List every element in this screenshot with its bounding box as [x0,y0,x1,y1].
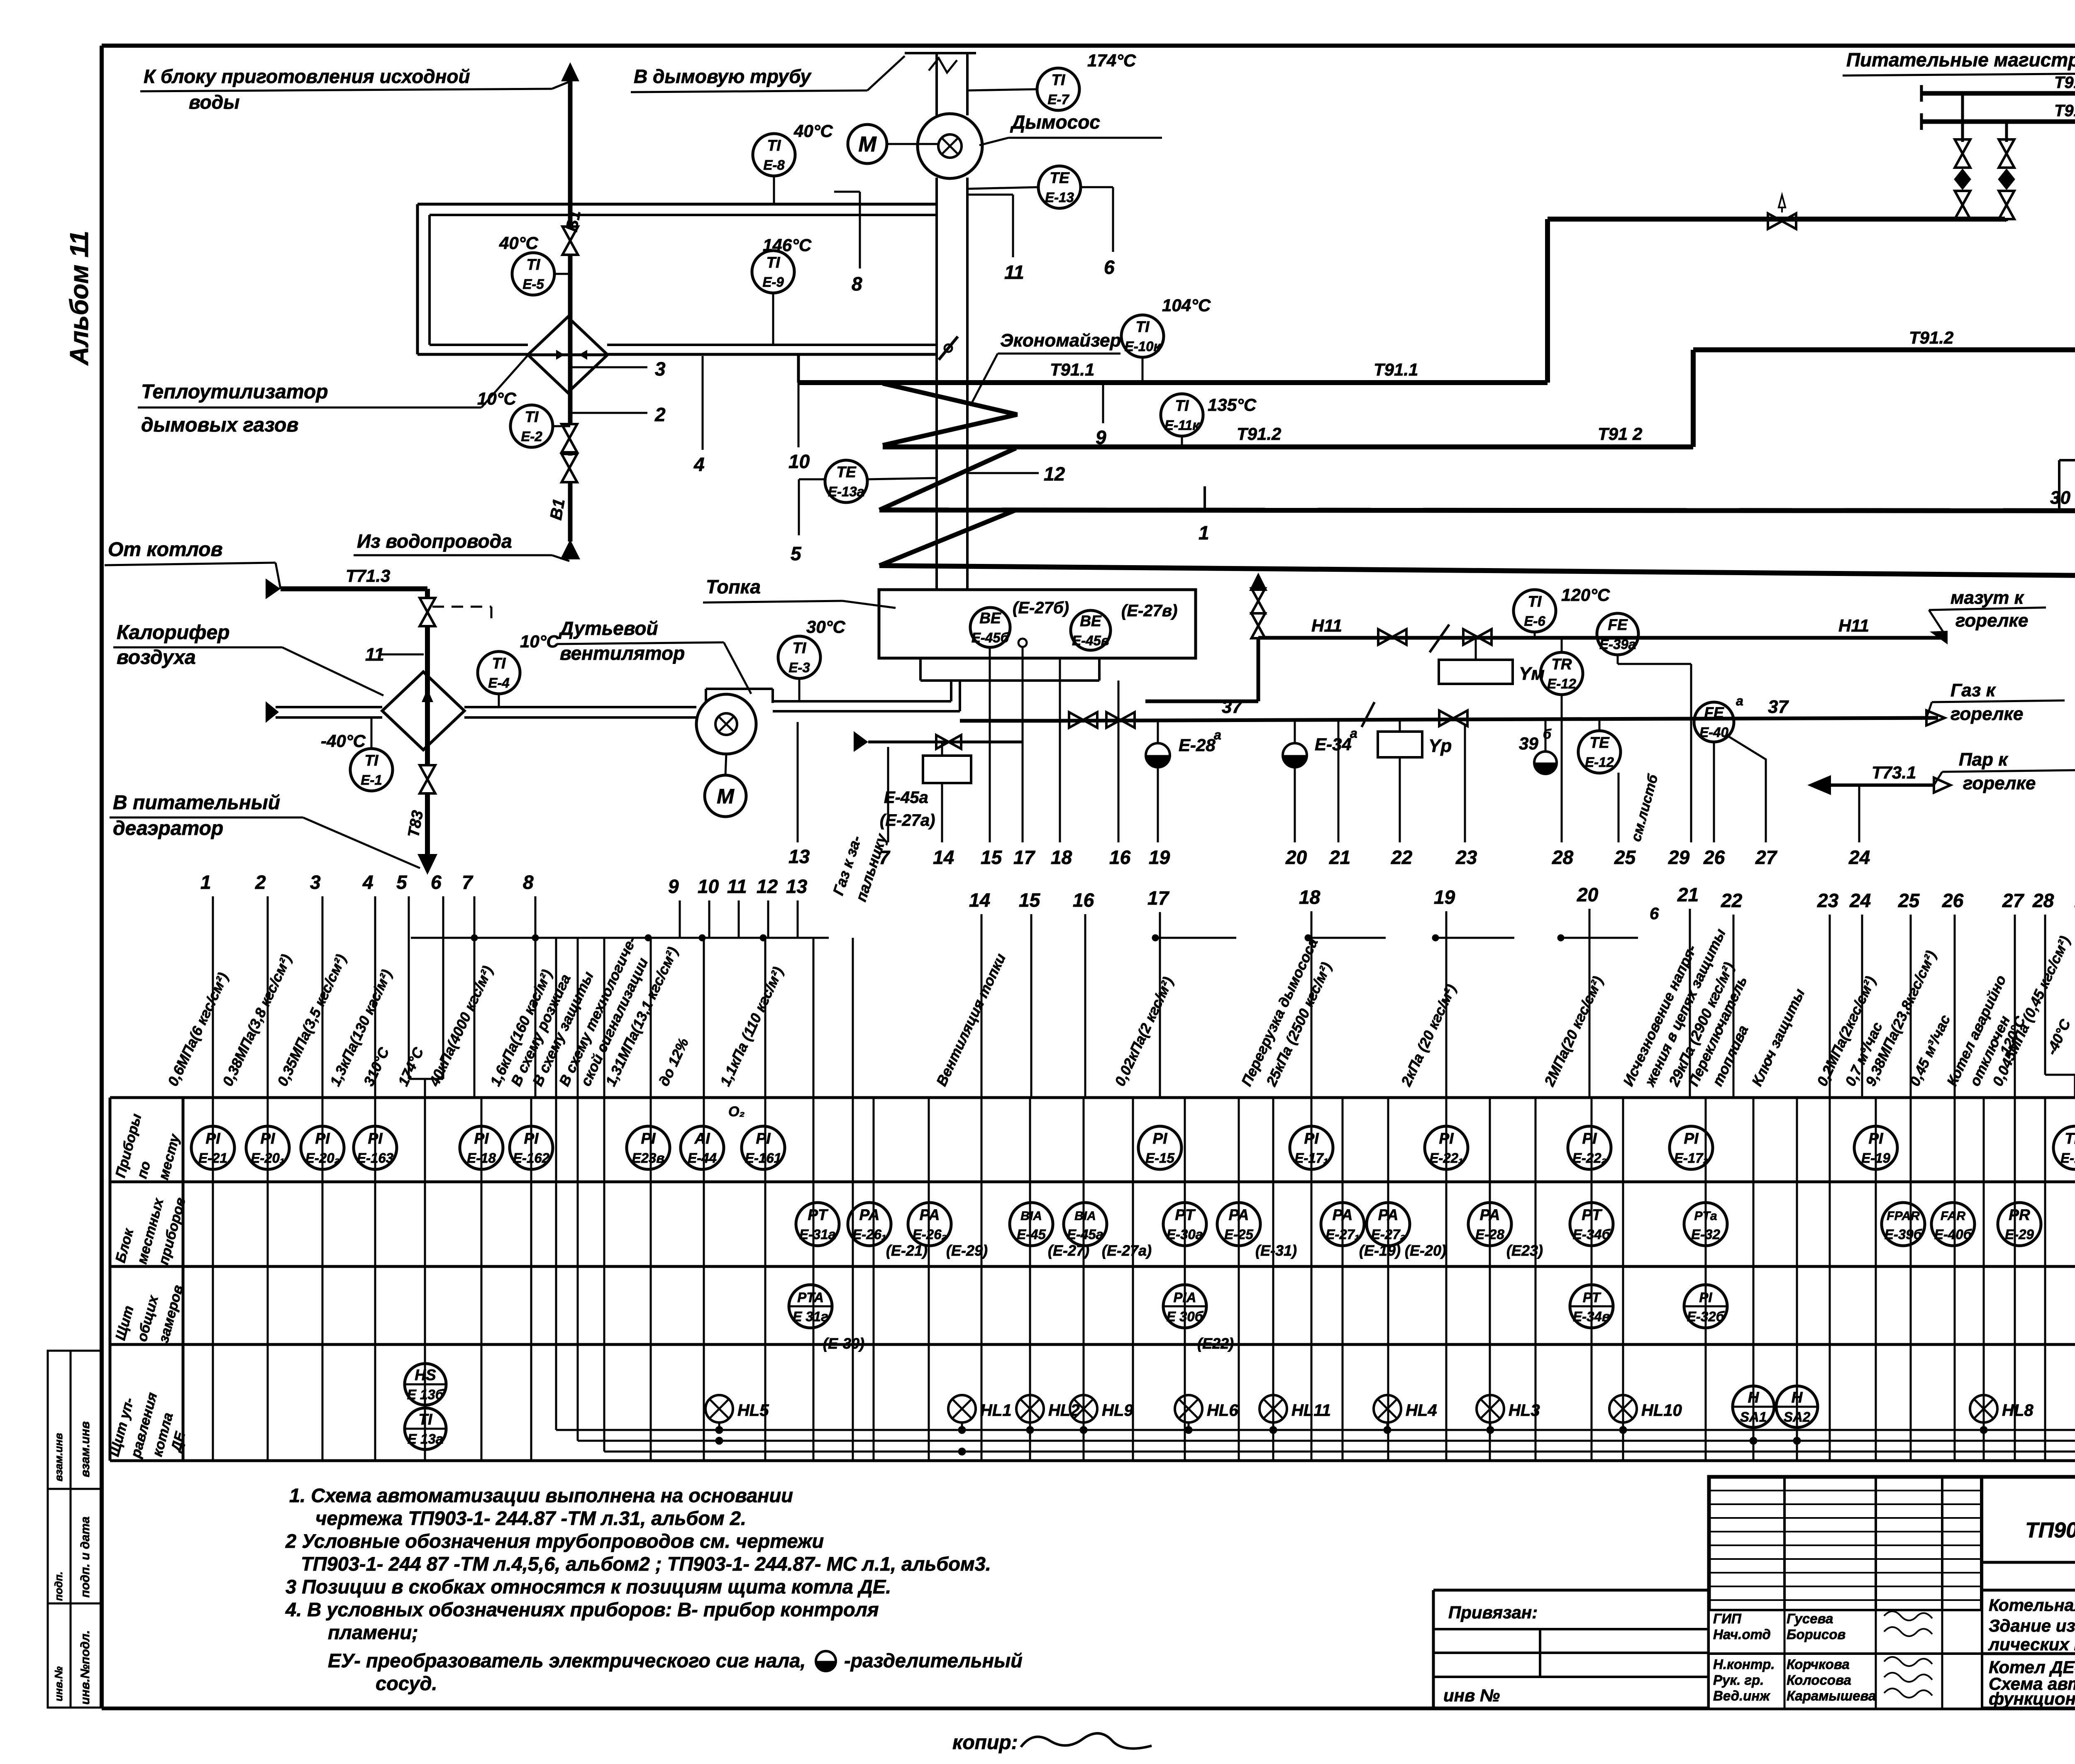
svg-text:Е-44: Е-44 [688,1150,717,1166]
svg-text:пламени;: пламени; [328,1621,418,1643]
svg-text:М: М [858,132,877,156]
svg-text:Т91.2: Т91.2 [1909,328,1953,347]
svg-text:Е-27₁: Е-27₁ [1326,1227,1359,1242]
svg-text:Е-3: Е-3 [788,660,810,675]
svg-text:16: 16 [1109,847,1131,868]
svg-text:(Е-31): (Е-31) [1255,1242,1297,1259]
svg-text:2: 2 [654,404,666,425]
svg-text:(Е-30): (Е-30) [823,1335,864,1352]
svg-text:дымовых газов: дымовых газов [141,414,298,436]
svg-text:Н11: Н11 [1311,616,1342,635]
svg-text:7: 7 [462,871,474,893]
svg-text:SA1: SA1 [1740,1409,1767,1425]
svg-text:В дымовую трубу: В дымовую трубу [634,66,812,87]
svg-text:HL1: HL1 [980,1401,1012,1420]
svg-text:PTа: PTа [1694,1209,1717,1223]
svg-text:TE: TE [1050,169,1070,186]
svg-text:PI: PI [1582,1130,1597,1147]
svg-text:(Е-27в): (Е-27в) [1121,602,1177,620]
svg-text:Е-34б: Е-34б [1573,1227,1611,1242]
svg-text:17: 17 [1147,887,1170,909]
svg-text:PI: PI [1304,1130,1319,1147]
svg-text:PI: PI [524,1130,539,1147]
svg-text:14: 14 [933,847,954,868]
svg-text:HL10: HL10 [1641,1401,1682,1420]
svg-text:Е-45а: Е-45а [1067,1227,1103,1242]
svg-text:(Е23): (Е23) [1506,1242,1543,1259]
svg-text:Газ к: Газ к [1950,680,1997,700]
svg-text:горелке: горелке [1955,610,2028,631]
svg-text:В1: В1 [563,209,584,233]
svg-text:Е-17₁: Е-17₁ [1294,1150,1328,1166]
svg-text:19: 19 [1149,847,1170,868]
svg-text:22: 22 [1721,890,1743,911]
svg-text:Топка: Топка [706,576,761,598]
svg-text:Е-39а: Е-39а [1599,637,1636,652]
svg-text:функциональная (Начало): функциональная (Начало) [1989,1689,2075,1708]
svg-text:Е-20₂: Е-20₂ [305,1150,339,1166]
svg-text:PI: PI [1684,1130,1699,1147]
svg-text:горелке: горелке [1950,704,2023,724]
svg-text:Е-31а: Е-31а [799,1227,836,1242]
svg-text:12: 12 [1044,463,1065,485]
svg-text:15: 15 [1019,889,1041,911]
svg-text:Котельная с 4котлами ДЕ-10-14Г: Котельная с 4котлами ДЕ-10-14ГМ [1989,1596,2075,1615]
svg-text:23: 23 [1455,847,1477,868]
svg-text:воздуха: воздуха [117,647,196,669]
svg-text:TR: TR [1551,656,1572,673]
svg-text:PI: PI [261,1130,276,1147]
svg-text:40°С: 40°С [499,233,539,253]
svg-text:TI: TI [1528,593,1542,610]
svg-text:-разделительный: -разделительный [844,1649,1023,1671]
svg-text:Т91.1: Т91.1 [1050,360,1094,379]
svg-text:Дутьевой: Дутьевой [558,617,658,639]
svg-text:Е-22₂: Е-22₂ [1572,1150,1606,1166]
svg-text:TI: TI [492,655,506,672]
svg-text:PT: PT [1583,1290,1601,1305]
svg-text:Е-25: Е-25 [1224,1227,1253,1242]
svg-text:(Е-27а): (Е-27а) [880,811,935,830]
svg-text:FPAR: FPAR [1887,1209,1920,1223]
svg-text:Е 13а: Е 13а [408,1431,443,1447]
svg-text:Е-45а: Е-45а [884,788,928,807]
svg-text:PR: PR [2009,1206,2030,1223]
svg-text:Е-28: Е-28 [1475,1227,1504,1242]
svg-text:9: 9 [668,876,679,897]
svg-text:Е 13б: Е 13б [407,1387,444,1402]
svg-text:TI: TI [1175,397,1189,414]
svg-text:ЕУ- преобразователь электрич: ЕУ- преобразователь электрического сиг н… [328,1649,806,1671]
svg-text:39: 39 [1519,734,1538,753]
svg-text:а: а [1214,727,1221,742]
svg-text:Е-5: Е-5 [522,276,544,292]
svg-text:4. В условных обозначениях: 4. В условных обозначениях приборов: В- … [285,1598,879,1620]
svg-text:TI: TI [525,408,539,425]
svg-text:Т91.1: Т91.1 [2054,73,2075,92]
svg-text:20: 20 [1285,847,1307,868]
svg-text:9: 9 [1096,427,1106,448]
svg-text:TI: TI [767,254,781,271]
svg-text:PA: PA [1480,1206,1500,1223]
svg-text:40°С: 40°С [793,121,833,141]
svg-text:Е-12: Е-12 [2060,1150,2075,1166]
svg-text:Е-26₁: Е-26₁ [852,1227,886,1242]
svg-text:К блоку приготовления исходной: К блоку приготовления исходной [144,66,470,87]
svg-text:Гусева: Гусева [1787,1611,1833,1626]
svg-text:Н: Н [1748,1389,1760,1406]
svg-text:TI: TI [527,256,541,273]
svg-text:HS: HS [415,1366,436,1383]
svg-text:От котлов: От котлов [108,539,223,561]
svg-text:HL3: HL3 [1509,1401,1540,1420]
svg-text:Е-12: Е-12 [1585,754,1614,770]
svg-text:Е-21: Е-21 [198,1150,227,1166]
svg-text:25: 25 [1614,847,1636,868]
svg-text:чертежа ТП903-1- 244.87: чертежа ТП903-1- 244.87 -ТМ л.31, альбом… [315,1507,746,1529]
svg-text:30: 30 [2050,488,2070,508]
svg-text:28: 28 [2032,890,2054,911]
svg-text:24: 24 [1849,890,1871,911]
svg-text:Н.контр.: Н.контр. [1713,1657,1775,1672]
svg-text:Е-7: Е-7 [1047,92,1069,107]
svg-text:ТП903-1- 244 87 -ТМ л.4,5,6,: ТП903-1- 244 87 -ТМ л.4,5,6, альбом2 ; Т… [301,1553,991,1575]
svg-text:PA: PA [859,1206,880,1223]
svg-text:12: 12 [757,876,778,897]
svg-text:3 Позиции в скобках относят: 3 Позиции в скобках относятся к позициям… [286,1576,891,1598]
svg-text:13: 13 [786,876,808,897]
svg-text:TI: TI [365,752,379,769]
svg-text:18: 18 [1051,847,1072,868]
svg-text:М: М [717,785,735,808]
svg-text:PI: PI [315,1130,330,1147]
svg-text:3: 3 [310,871,321,893]
svg-text:TI: TI [1136,318,1150,335]
svg-text:TE: TE [836,464,857,481]
svg-text:Е-2: Е-2 [521,429,542,444]
svg-text:PI: PI [1699,1290,1712,1305]
svg-text:В питательный: В питательный [113,792,280,814]
svg-text:Е-6: Е-6 [1524,613,1545,629]
svg-text:PT: PT [808,1206,829,1223]
svg-text:HL4: HL4 [1406,1401,1437,1420]
svg-text:TE: TE [1589,734,1610,751]
svg-text:BE: BE [979,610,1001,627]
svg-text:TI: TI [767,137,781,154]
svg-text:вентилятор: вентилятор [560,642,685,664]
svg-text:HL9: HL9 [1102,1401,1133,1420]
svg-text:HL11: HL11 [1291,1401,1331,1420]
svg-text:Н: Н [1792,1389,1803,1406]
svg-text:Е-32б: Е-32б [1687,1309,1725,1324]
svg-text:Экономайзер: Экономайзер [1000,330,1121,351]
svg-text:8: 8 [523,871,534,893]
svg-text:PI: PI [206,1130,221,1147]
svg-text:Т91.2: Т91.2 [1237,424,1281,444]
svg-text:BIA: BIA [1074,1209,1096,1223]
svg-text:горелке: горелке [1963,773,2036,793]
svg-text:PIA: PIA [1173,1290,1196,1305]
svg-text:10°С: 10°С [477,389,517,408]
svg-text:сосуд.: сосуд. [376,1672,437,1694]
svg-text:(Е-29): (Е-29) [946,1242,988,1259]
svg-text:TI: TI [419,1411,433,1428]
svg-text:Е-163: Е-163 [357,1150,393,1166]
svg-text:2 Условные обозначения трубо: 2 Условные обозначения трубопроводов см.… [285,1530,824,1552]
svg-text:PI: PI [1869,1130,1884,1147]
svg-text:Е-17₂: Е-17₂ [1674,1150,1708,1166]
svg-text:(Е22): (Е22) [1197,1335,1234,1352]
svg-text:Е-32: Е-32 [1691,1227,1720,1242]
svg-text:104°С: 104°С [1162,295,1211,315]
svg-text:Е-34в: Е-34в [1573,1309,1610,1324]
svg-text:Е-30а: Е-30а [1167,1227,1203,1242]
svg-text:Колосова: Колосова [1787,1672,1851,1688]
svg-text:Питательные магистрали: Питательные магистрали [1846,49,2075,71]
svg-text:18: 18 [1299,886,1321,908]
svg-text:13: 13 [788,846,810,867]
svg-text:(Е-27б): (Е-27б) [1013,599,1069,617]
svg-text:174°С: 174°С [1087,51,1136,70]
svg-text:Yр: Yр [1428,736,1452,756]
svg-text:а: а [1736,693,1743,708]
svg-text:Т91.1: Т91.1 [1374,360,1418,379]
svg-text:10: 10 [788,451,810,472]
svg-text:27: 27 [1755,847,1778,868]
svg-text:PI: PI [1439,1130,1454,1147]
svg-text:Е-40б: Е-40б [1934,1227,1972,1242]
svg-text:AI: AI [694,1130,710,1147]
svg-text:лических конструкций: лических конструкций [1988,1635,2075,1654]
svg-text:воды: воды [189,91,239,113]
svg-text:FE: FE [1704,704,1724,721]
svg-text:4: 4 [362,871,373,893]
svg-text:6: 6 [1104,256,1115,278]
svg-text:10°С: 10°С [520,632,559,651]
svg-text:PI: PI [641,1130,656,1147]
svg-text:19: 19 [1434,886,1455,908]
svg-text:21: 21 [1677,884,1699,905]
svg-text:мазут к: мазут к [1950,588,2025,608]
svg-text:5: 5 [791,543,802,564]
svg-text:PTA: PTA [797,1290,824,1305]
svg-text:Т91.1: Т91.1 [2054,102,2075,120]
svg-text:копир:: копир: [952,1732,1018,1754]
svg-text:Е-15: Е-15 [1145,1150,1174,1166]
svg-text:Т71.3: Т71.3 [346,566,390,586]
svg-text:11: 11 [1004,261,1024,283]
svg-text:инв.№подл.: инв.№подл. [78,1630,92,1705]
svg-text:Калорифер: Калорифер [117,622,229,644]
svg-text:Е 30б: Е 30б [1167,1309,1204,1324]
svg-text:Е-29: Е-29 [2005,1227,2034,1242]
svg-text:29: 29 [1668,847,1690,868]
svg-text:Борисов: Борисов [1787,1627,1846,1642]
svg-text:FE: FE [1608,616,1628,633]
svg-text:Нач.отд: Нач.отд [1713,1627,1771,1642]
svg-text:TI: TI [1052,71,1066,88]
svg-text:26: 26 [1703,847,1725,868]
svg-text:взам.инв: взам.инв [52,1433,65,1481]
svg-text:Е-22₁: Е-22₁ [1429,1150,1463,1166]
svg-text:4: 4 [693,454,705,475]
svg-text:PI: PI [756,1130,771,1147]
svg-text:25: 25 [1898,890,1920,911]
svg-text:Из водопровода: Из водопровода [357,530,512,552]
svg-text:PA: PA [1229,1206,1249,1223]
svg-text:30°С: 30°С [806,617,846,637]
svg-text:инв №: инв № [1443,1686,1500,1705]
svg-text:PI: PI [474,1130,489,1147]
svg-text:5: 5 [396,871,408,893]
svg-text:Е-20₁: Е-20₁ [251,1150,284,1166]
svg-text:Е-162: Е-162 [513,1150,550,1166]
svg-text:6: 6 [1650,905,1659,923]
svg-text:Е23в: Е23в [632,1150,665,1166]
svg-text:б: б [1543,727,1552,742]
svg-text:HL8: HL8 [2002,1401,2033,1420]
svg-text:3: 3 [655,358,666,380]
svg-text:Е-45в: Е-45в [1072,633,1109,648]
svg-text:Корчкова: Корчкова [1787,1657,1850,1672]
svg-text:Е-13: Е-13 [1045,190,1074,205]
svg-text:а: а [1350,726,1357,741]
svg-text:14: 14 [969,889,990,911]
svg-text:Е-11к: Е-11к [1164,417,1200,433]
svg-text:Вед.инж: Вед.инж [1713,1688,1770,1703]
svg-text:Рук. гр.: Рук. гр. [1713,1672,1764,1688]
svg-text:PI: PI [368,1130,383,1147]
svg-text:Е-27₂: Е-27₂ [1371,1227,1405,1242]
svg-text:(Е-20): (Е-20) [1405,1242,1446,1259]
svg-text:Е-28: Е-28 [1179,735,1216,755]
svg-text:Привязан:: Привязан: [1448,1603,1538,1622]
svg-text:Е-9: Е-9 [762,274,784,290]
svg-text:1: 1 [1199,522,1209,544]
svg-text:ГИП: ГИП [1713,1611,1742,1626]
svg-text:16: 16 [1073,889,1094,911]
svg-text:Е-45б: Е-45б [972,630,1010,645]
svg-text:TR: TR [2065,1130,2075,1147]
svg-text:инв.№: инв.№ [52,1666,65,1701]
svg-text:Альбом 11: Альбом 11 [65,231,94,366]
svg-text:11: 11 [727,876,747,897]
svg-text:HL6: HL6 [1207,1401,1238,1420]
svg-text:Е-39б: Е-39б [1885,1227,1923,1242]
svg-text:Е-8: Е-8 [763,157,785,173]
svg-text:Е-10к: Е-10к [1125,339,1162,354]
svg-text:BIA: BIA [1020,1209,1042,1223]
svg-text:27: 27 [2002,890,2025,911]
svg-text:Е-40: Е-40 [1699,725,1728,740]
svg-text:PA: PA [1333,1206,1353,1223]
svg-text:Е-18: Е-18 [467,1150,496,1166]
svg-text:10: 10 [698,876,719,897]
svg-text:В1: В1 [547,498,569,522]
svg-text:Е 31г: Е 31г [793,1309,828,1324]
svg-text:BE: BE [1080,612,1102,629]
svg-text:SA2: SA2 [1784,1409,1811,1425]
svg-text:взам.инв: взам.инв [78,1421,92,1477]
svg-text:Е-161: Е-161 [745,1150,781,1166]
svg-text:135°С: 135°С [1208,395,1257,415]
svg-text:PT: PT [1582,1206,1603,1223]
svg-text:1. Схема автоматизации выполн: 1. Схема автоматизации выполнена на осно… [289,1484,793,1506]
svg-text:17: 17 [1013,847,1036,868]
svg-text:21: 21 [1329,847,1350,868]
svg-text:2: 2 [255,871,266,893]
svg-text:деаэратор: деаэратор [113,817,223,839]
svg-text:15: 15 [981,847,1003,868]
svg-text:8: 8 [852,273,862,295]
svg-text:ТП903-1- 244 87 - АТМ1: ТП903-1- 244 87 - АТМ1 [2025,1518,2075,1542]
svg-text:Е-34: Е-34 [1315,734,1352,754]
svg-text:PT: PT [1175,1206,1196,1223]
svg-text:Е-26₂: Е-26₂ [913,1227,947,1242]
svg-text:24: 24 [1848,847,1870,868]
svg-text:(Е-27а): (Е-27а) [1102,1242,1152,1259]
svg-text:1: 1 [200,871,211,893]
svg-text:О₂: О₂ [728,1104,745,1120]
svg-text:Пар к: Пар к [1959,749,2009,770]
svg-text:TI: TI [793,639,807,656]
svg-text:Карамышева: Карамышева [1787,1688,1876,1703]
svg-text:Е-12: Е-12 [1547,676,1576,691]
svg-text:PA: PA [920,1206,940,1223]
svg-text:Н11: Н11 [1838,616,1869,635]
svg-text:26: 26 [1942,890,1964,911]
svg-text:23: 23 [1817,890,1839,911]
svg-text:Е-19: Е-19 [1861,1150,1890,1166]
svg-text:Т91 2: Т91 2 [1598,424,1642,444]
svg-text:-40°С: -40°С [321,731,366,751]
svg-text:PA: PA [1378,1206,1399,1223]
svg-text:Теплоутилизатор: Теплоутилизатор [141,381,328,403]
svg-text:37: 37 [1768,697,1789,717]
svg-text:28: 28 [1552,847,1574,868]
svg-text:Е-4: Е-4 [488,675,509,690]
svg-text:22: 22 [1391,847,1413,868]
svg-text:20: 20 [1577,884,1599,905]
svg-text:6: 6 [431,871,442,893]
svg-text:HL5: HL5 [737,1401,769,1420]
svg-text:Е-1: Е-1 [361,772,382,788]
svg-text:Т73.1: Т73.1 [1872,763,1916,782]
svg-text:120°С: 120°С [1561,585,1610,605]
svg-text:Е-45: Е-45 [1017,1227,1046,1242]
svg-text:PI: PI [1153,1130,1168,1147]
svg-text:подп. и дата: подп. и дата [78,1517,92,1598]
svg-text:подп.: подп. [52,1571,65,1601]
svg-text:Е-13а: Е-13а [828,484,864,499]
svg-text:Дымосос: Дымосос [1010,111,1100,133]
svg-text:Здание из легких метал-: Здание из легких метал- [1989,1616,2075,1635]
svg-text:FAR: FAR [1941,1209,1965,1223]
